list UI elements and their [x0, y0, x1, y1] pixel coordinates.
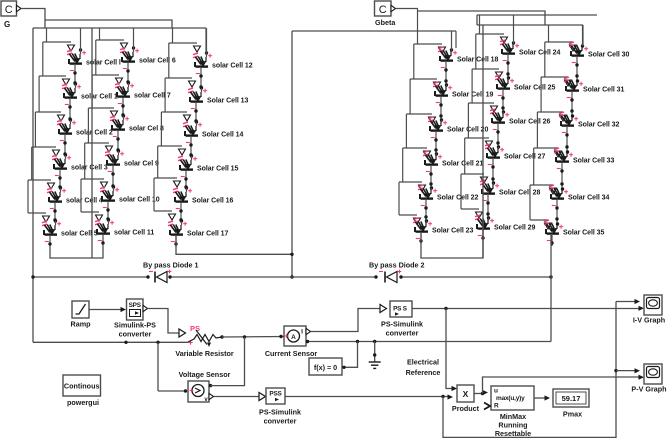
svg-text:Solar Cell 22: Solar Cell 22: [437, 194, 479, 201]
svg-text:Solar Cell 24: Solar Cell 24: [519, 49, 561, 56]
svg-text:Solar Cell 13: Solar Cell 13: [207, 97, 249, 104]
svg-text:Continous: Continous: [64, 381, 100, 390]
svg-text:Variable Resistor: Variable Resistor: [175, 349, 234, 358]
svg-text:Solar Cell 19: Solar Cell 19: [452, 91, 494, 98]
svg-text:Solar Cell 35: Solar Cell 35: [563, 229, 605, 236]
svg-text:Ramp: Ramp: [71, 320, 92, 329]
svg-text:Solar Cell 14: Solar Cell 14: [202, 131, 244, 138]
svg-text:Solar Cell 15: Solar Cell 15: [197, 165, 239, 172]
svg-text:By pass Diode 1: By pass Diode 1: [143, 261, 199, 270]
svg-text:A: A: [291, 334, 296, 341]
svg-text:Solar Cell 25: Solar Cell 25: [514, 84, 556, 91]
svg-text:converter: converter: [119, 329, 152, 338]
svg-text:Reference: Reference: [406, 368, 441, 377]
svg-text:Solar Cell 27: Solar Cell 27: [504, 153, 546, 160]
svg-text:Solar Cell 17: Solar Cell 17: [187, 230, 229, 237]
svg-text:solar Cell l: solar Cell l: [86, 59, 121, 66]
svg-text:Solar Cell 18: Solar Cell 18: [457, 56, 499, 63]
svg-text:By pass Diode 2: By pass Diode 2: [369, 261, 425, 270]
svg-text:solar Cell 12: solar Cell 12: [212, 62, 253, 69]
svg-text:PS S: PS S: [393, 306, 408, 313]
svg-text:solar Cell 4: solar Cell 4: [66, 197, 103, 204]
svg-text:PS: PS: [190, 324, 200, 333]
svg-text:Solar Cell 33: Solar Cell 33: [573, 157, 615, 164]
svg-text:Pmax: Pmax: [563, 410, 582, 419]
svg-text:PS-Simulink: PS-Simulink: [381, 320, 423, 329]
svg-text:Solar Cell 20: Solar Cell 20: [447, 126, 489, 133]
svg-text:converter: converter: [264, 416, 297, 425]
svg-text:Gbeta: Gbeta: [375, 18, 396, 27]
svg-text:Product: Product: [452, 404, 480, 413]
svg-text:Solar Cell 32: Solar Cell 32: [578, 121, 620, 128]
svg-text:X: X: [463, 389, 469, 399]
svg-text:u: u: [494, 388, 498, 395]
svg-text:solar Cell 2: solar Cell 2: [76, 129, 113, 136]
svg-text:I: I: [301, 329, 303, 336]
svg-text:Solar Cell 30: Solar Cell 30: [588, 51, 630, 58]
svg-text:Solar Cell 29: Solar Cell 29: [494, 224, 536, 231]
svg-text:solar Cell 11: solar Cell 11: [114, 229, 154, 236]
svg-text:solar Cell 6: solar Cell 6: [139, 57, 176, 64]
svg-text:converter: converter: [386, 329, 419, 338]
svg-text:C: C: [5, 4, 13, 16]
svg-text:Solar Cell 23: Solar Cell 23: [432, 227, 474, 234]
svg-text:powergui: powergui: [67, 398, 99, 407]
svg-text:Voltage Sensor: Voltage Sensor: [179, 370, 231, 379]
svg-text:Current Sensor: Current Sensor: [265, 349, 318, 358]
svg-text:I-V Graph: I-V Graph: [633, 316, 665, 325]
svg-text:max(u,y)y: max(u,y)y: [496, 395, 525, 402]
svg-text:solar Cel 9: solar Cel 9: [124, 160, 159, 167]
svg-text:59.17: 59.17: [562, 394, 581, 403]
svg-text:SPS: SPS: [129, 302, 142, 309]
svg-text:Solar Cell 31: Solar Cell 31: [583, 86, 625, 93]
svg-text:R: R: [494, 403, 499, 410]
svg-text:PS-Simulink: PS-Simulink: [259, 407, 301, 416]
svg-text:Solar Cell 34: Solar Cell 34: [568, 194, 610, 201]
svg-text:solar Cel 8: solar Cel 8: [129, 125, 164, 132]
svg-text:C: C: [379, 4, 387, 16]
svg-text:solar Cell 3: solar Cell 3: [71, 164, 108, 171]
svg-text:Simulink-PS: Simulink-PS: [114, 320, 156, 329]
svg-text:Resettable: Resettable: [495, 429, 531, 438]
svg-text:Solar Cell 26: Solar Cell 26: [509, 118, 551, 125]
svg-text:P-V Graph: P-V Graph: [631, 385, 666, 394]
svg-text:Solar Cell 28: Solar Cell 28: [499, 189, 541, 196]
svg-text:PSS: PSS: [269, 391, 282, 398]
svg-text:solar Cell 1: solar Cell 1: [81, 93, 118, 100]
svg-text:Solar Cell 16: Solar Cell 16: [192, 197, 234, 204]
svg-text:G: G: [4, 20, 10, 29]
svg-text:Solar Cell 21: Solar Cell 21: [442, 160, 484, 167]
svg-text:Electrical: Electrical: [407, 358, 439, 367]
svg-text:f(x) = 0: f(x) = 0: [314, 363, 337, 372]
